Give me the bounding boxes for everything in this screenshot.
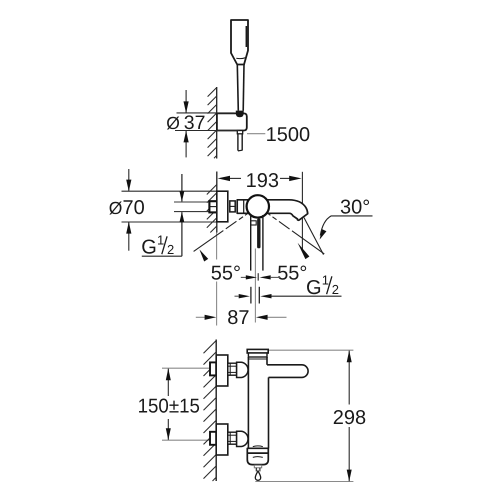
svg-text:70: 70 [123,197,145,219]
svg-text:30°: 30° [340,197,370,219]
svg-text:G: G [306,277,322,299]
svg-text:G: G [141,237,157,259]
svg-text:Ø: Ø [109,198,123,218]
svg-text:2: 2 [167,242,174,257]
svg-text:55°: 55° [277,262,307,284]
svg-text:1500: 1500 [266,124,311,146]
svg-text:1: 1 [157,232,164,247]
svg-text:Ø: Ø [166,113,180,133]
svg-text:150±15: 150±15 [138,395,200,417]
svg-text:2: 2 [332,282,339,297]
svg-text:1: 1 [322,272,329,287]
svg-text:37: 37 [184,112,206,134]
svg-text:87: 87 [227,307,249,329]
svg-text:193: 193 [246,170,279,192]
svg-text:55°: 55° [211,262,241,284]
svg-text:298: 298 [333,407,366,429]
